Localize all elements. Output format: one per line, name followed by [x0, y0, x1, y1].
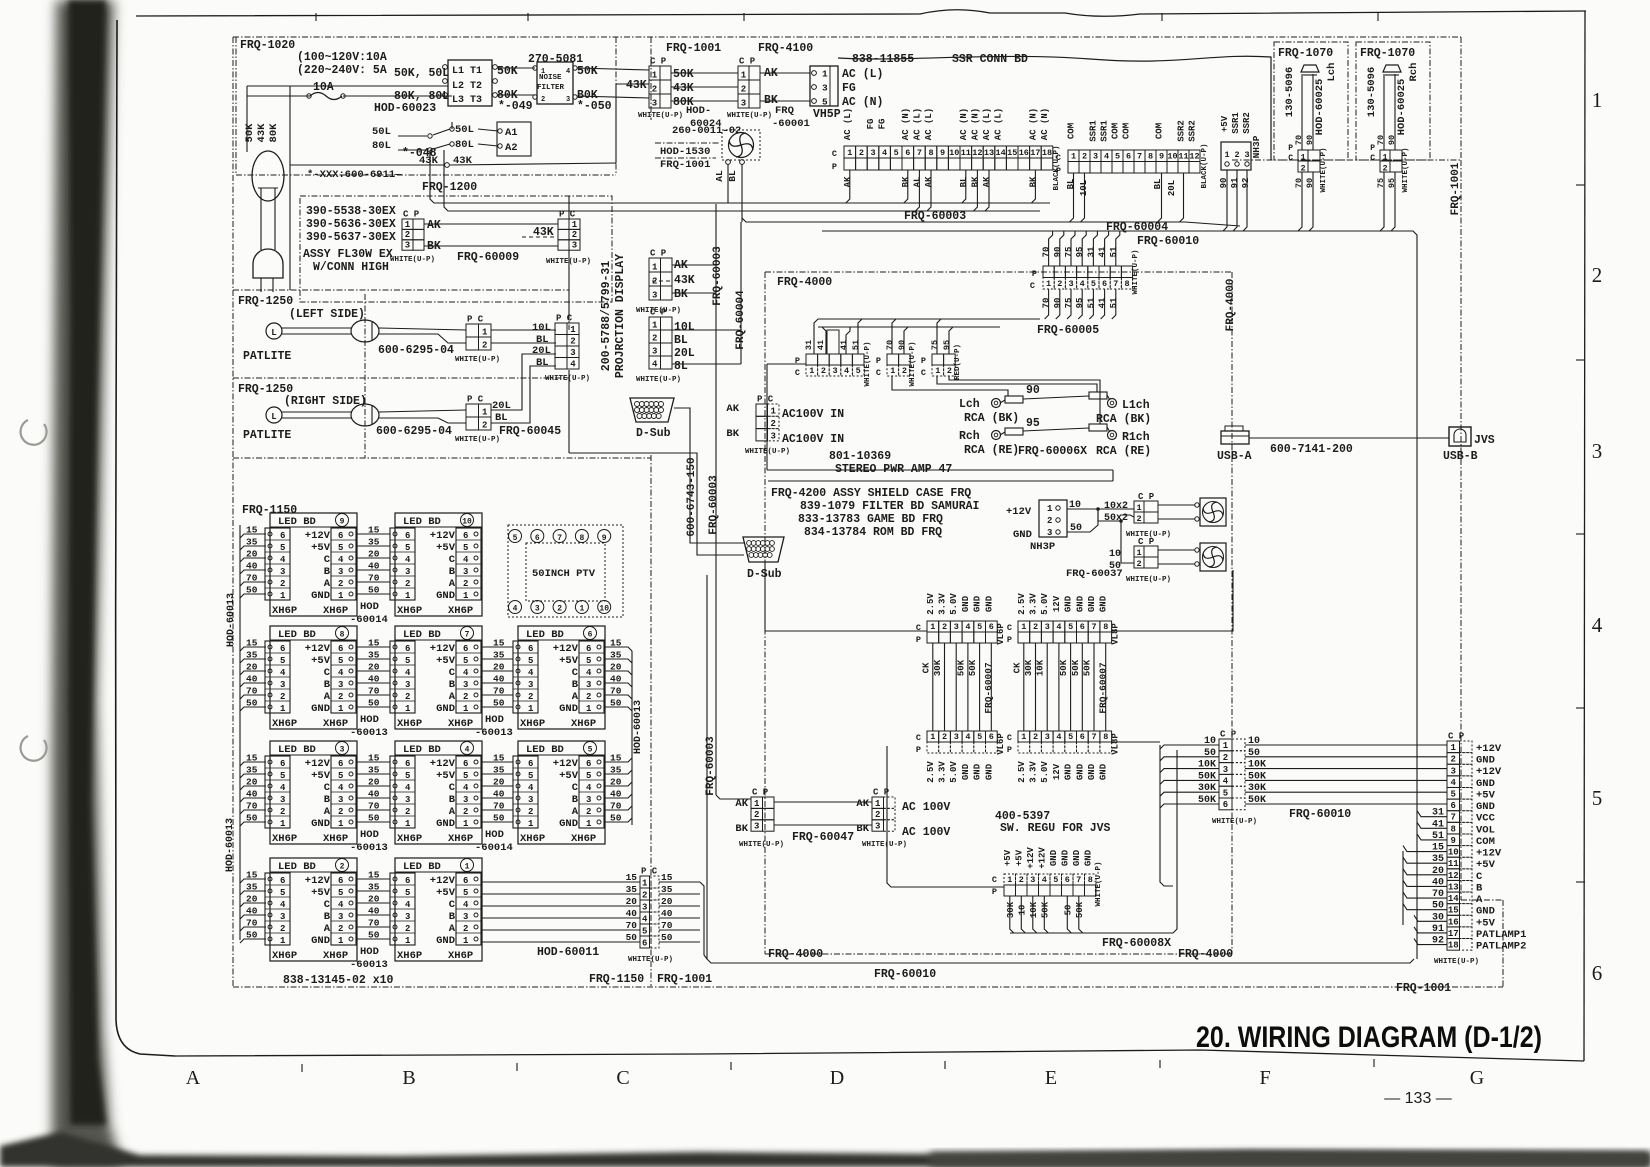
svg-text:1: 1	[935, 366, 940, 376]
svg-text:1: 1	[280, 704, 286, 714]
svg-text:50: 50	[661, 932, 673, 943]
svg-text:90: 90	[1387, 135, 1397, 145]
svg-text:1: 1	[642, 878, 648, 888]
svg-text:2: 2	[405, 230, 410, 240]
svg-text:4: 4	[528, 783, 534, 793]
svg-text:5: 5	[977, 732, 982, 742]
speaker connector wires down Rch	[1380, 172, 1384, 231]
svg-text:AC100V IN: AC100V IN	[782, 433, 844, 446]
svg-text:HOD-60013: HOD-60013	[633, 700, 644, 754]
svg-text:FRQ-60007: FRQ-60007	[983, 662, 994, 714]
svg-text:70: 70	[1042, 298, 1052, 309]
wires D-Sub to cable 600-6743-150	[674, 408, 744, 543]
svg-text:50K: 50K	[497, 65, 518, 78]
wire lamp conn drop	[568, 196, 570, 219]
svg-text:+12V: +12V	[305, 530, 331, 542]
svg-text:31: 31	[804, 340, 814, 350]
svg-text:2: 2	[1047, 516, 1052, 526]
svg-text:9: 9	[940, 148, 945, 158]
regulator right loop wire	[1160, 745, 1173, 886]
svg-text:AC100V IN: AC100V IN	[782, 408, 844, 421]
dashed box FRQ-1070 Lch	[1274, 42, 1348, 160]
svg-text:4: 4	[405, 555, 411, 565]
svg-text:+5V: +5V	[436, 542, 456, 554]
svg-text:40: 40	[610, 674, 622, 685]
svg-text:*-049: *-049	[498, 100, 533, 113]
svg-text:PATLAMP1: PATLAMP1	[1476, 929, 1526, 941]
svg-text:AC (N): AC (N)	[1028, 108, 1038, 140]
svg-text:50K: 50K	[577, 65, 598, 78]
svg-text:1: 1	[1224, 150, 1229, 160]
svg-text:ASSY FL30W EX: ASSY FL30W EX	[303, 248, 393, 261]
svg-text:9: 9	[340, 518, 345, 527]
svg-text:1: 1	[875, 799, 881, 809]
svg-text:+5V: +5V	[311, 770, 331, 782]
svg-text:1: 1	[586, 819, 592, 829]
svg-text:18: 18	[1042, 148, 1052, 158]
svg-text:2: 2	[1136, 559, 1141, 569]
svg-text:VH5P: VH5P	[813, 108, 841, 121]
transformer HOD-60023 terminal block	[448, 60, 492, 106]
svg-text:2: 2	[1592, 263, 1603, 287]
bus FRQ-60003 horizontal	[430, 150, 1050, 203]
svg-text:43K: 43K	[674, 274, 695, 287]
LED BD row input fan wires	[240, 762, 266, 766]
svg-text:AC (L): AC (L)	[912, 108, 922, 140]
svg-text:C: C	[916, 733, 921, 743]
svg-text:5.0V: 5.0V	[949, 761, 959, 783]
patlite lamp left	[266, 323, 282, 339]
svg-text:6: 6	[463, 531, 468, 541]
svg-text:HOD-60025: HOD-60025	[1314, 79, 1326, 136]
svg-text:2: 2	[902, 366, 907, 376]
svg-text:10L: 10L	[532, 322, 551, 334]
svg-text:6: 6	[338, 644, 343, 654]
wire BK	[424, 245, 558, 247]
svg-text:COM: COM	[1111, 123, 1121, 139]
svg-text:XH6P: XH6P	[571, 833, 596, 845]
svg-text:A: A	[572, 806, 579, 818]
svg-text:41: 41	[1098, 297, 1108, 308]
svg-text:20L: 20L	[674, 347, 695, 360]
drawing frame bottom line	[175, 1050, 1584, 1061]
wires 2P a up	[892, 319, 896, 354]
svg-text:2: 2	[1057, 279, 1062, 289]
LED BD 6 board	[518, 626, 605, 729]
svg-text:4: 4	[405, 783, 411, 793]
svg-text:95: 95	[1026, 417, 1040, 430]
svg-text:2: 2	[528, 807, 533, 817]
svg-text:AK: AK	[982, 176, 992, 187]
svg-text:75: 75	[930, 340, 940, 350]
svg-text:VL6P: VL6P	[996, 733, 1006, 755]
svg-text:3: 3	[954, 732, 959, 742]
svg-text:VOL: VOL	[1476, 824, 1495, 836]
svg-text:5: 5	[280, 543, 285, 553]
svg-text:C: C	[795, 368, 800, 378]
svg-text:35: 35	[661, 884, 673, 895]
svg-text:P: P	[992, 887, 997, 897]
svg-text:AK: AK	[726, 403, 739, 415]
svg-text:2: 2	[405, 807, 410, 817]
svg-text:10K: 10K	[1036, 659, 1046, 676]
svg-text:2: 2	[280, 807, 285, 817]
patlite body right	[351, 404, 379, 426]
connector 2P Rch	[1380, 150, 1390, 161]
svg-text:FRQ-60003: FRQ-60003	[712, 246, 724, 306]
svg-text:2: 2	[340, 863, 345, 872]
svg-text:4: 4	[1056, 622, 1061, 632]
svg-text:WHITE(U-P): WHITE(U-P)	[1402, 147, 1410, 192]
svg-text:6: 6	[280, 531, 285, 541]
svg-text:A: A	[186, 1067, 201, 1089]
svg-text:5: 5	[642, 926, 647, 936]
svg-text:+5V: +5V	[1014, 849, 1024, 866]
svg-text:9: 9	[1451, 836, 1456, 846]
svg-text:BL: BL	[674, 334, 688, 347]
svg-text:1: 1	[280, 819, 286, 829]
connector NH3P	[1221, 142, 1251, 170]
wire switch drops	[429, 150, 431, 165]
svg-text:3: 3	[405, 241, 410, 251]
svg-text:WHITE(U-P): WHITE(U-P)	[1434, 958, 1479, 966]
svg-text:5: 5	[405, 888, 410, 898]
svg-text:FRQ-1001: FRQ-1001	[666, 42, 721, 55]
svg-text:6: 6	[405, 644, 410, 654]
LED BD 1 XH6P output connector	[456, 873, 481, 945]
svg-text:GND: GND	[1099, 763, 1109, 780]
svg-text:35: 35	[610, 650, 622, 661]
svg-text:3: 3	[405, 912, 410, 922]
RCA lead 95	[1005, 428, 1023, 435]
svg-text:XH6P: XH6P	[323, 950, 348, 962]
svg-text:C P: C P	[1448, 732, 1465, 742]
svg-text:6: 6	[463, 759, 468, 769]
svg-text:5: 5	[588, 746, 593, 755]
svg-text:FRQ-4000: FRQ-4000	[777, 276, 832, 289]
svg-text:70: 70	[1042, 247, 1052, 258]
svg-text:2.5V: 2.5V	[1017, 761, 1027, 783]
svg-text:-60013: -60013	[350, 959, 388, 971]
svg-text:4: 4	[1592, 613, 1603, 637]
svg-text:6: 6	[405, 531, 410, 541]
speaker wires Rch	[1383, 74, 1385, 150]
wires VL6P	[932, 643, 934, 731]
svg-text:HOD-60025: HOD-60025	[1396, 79, 1408, 136]
svg-text:5.0V: 5.0V	[1040, 761, 1050, 783]
LED BD 10 XH6P input connector	[390, 528, 415, 600]
svg-text:2: 2	[586, 692, 591, 702]
svg-text:50: 50	[610, 698, 622, 709]
svg-text:50K, 50L: 50K, 50L	[394, 67, 449, 80]
svg-text:GND: GND	[1075, 595, 1085, 612]
LED BD 10 board	[395, 513, 482, 616]
svg-text:4: 4	[586, 668, 592, 678]
svg-text:4: 4	[1042, 875, 1047, 885]
svg-text:B: B	[449, 566, 456, 578]
svg-text:L: L	[271, 412, 276, 422]
svg-text:GND: GND	[1087, 595, 1097, 612]
svg-text:7: 7	[465, 631, 470, 640]
svg-text:8: 8	[1088, 875, 1093, 885]
svg-text:91: 91	[1230, 177, 1240, 188]
svg-text:35: 35	[610, 765, 622, 776]
svg-text:C: C	[1030, 281, 1035, 291]
svg-text:GND: GND	[1013, 529, 1032, 541]
svg-text:FILTER: FILTER	[537, 84, 565, 92]
svg-text:5: 5	[513, 534, 518, 543]
wires right patlite up to 4pin	[491, 354, 556, 410]
svg-text:70: 70	[885, 340, 895, 350]
svg-text:+5V: +5V	[436, 655, 456, 667]
svg-text:2: 2	[280, 692, 285, 702]
svg-text:HOD-60011: HOD-60011	[537, 946, 599, 959]
svg-text:+5V: +5V	[1476, 859, 1496, 871]
svg-text:FG: FG	[866, 119, 876, 130]
svg-text:90: 90	[1053, 298, 1063, 309]
wires 6P to JVS 18P	[1245, 744, 1447, 746]
svg-text:4: 4	[642, 914, 648, 924]
connector 2P Lch	[1298, 150, 1308, 161]
RCA R1ch jack	[1108, 431, 1117, 440]
svg-text:FRQ-60010: FRQ-60010	[1289, 808, 1351, 821]
wires amp to RCA leads	[892, 376, 1008, 396]
svg-text:14: 14	[995, 148, 1005, 158]
svg-text:6: 6	[989, 622, 994, 632]
svg-text:3: 3	[1093, 152, 1098, 162]
connector FRQ-60005 8P	[1043, 266, 1054, 278]
svg-text:GND: GND	[1476, 755, 1495, 767]
svg-text:GND: GND	[436, 935, 455, 947]
svg-text:P C: P C	[467, 315, 484, 325]
svg-text:3: 3	[280, 795, 285, 805]
svg-text:4: 4	[338, 668, 344, 678]
svg-text:75: 75	[1064, 247, 1074, 258]
svg-text:70: 70	[610, 686, 622, 697]
stereo amp enclosure	[767, 363, 806, 365]
svg-text:41: 41	[839, 340, 849, 350]
svg-text:+12V: +12V	[1026, 847, 1036, 869]
svg-text:2: 2	[875, 810, 880, 820]
svg-text:3: 3	[754, 822, 759, 832]
svg-text:+12V: +12V	[305, 643, 331, 655]
svg-text:1: 1	[528, 819, 534, 829]
svg-text:LED BD: LED BD	[403, 744, 441, 756]
svg-text:G: G	[1470, 1067, 1484, 1089]
svg-text:FRQ: FRQ	[775, 105, 794, 117]
svg-text:GND: GND	[1075, 763, 1085, 780]
svg-text:+12V: +12V	[1476, 766, 1502, 778]
LED BD 3 board	[270, 741, 357, 844]
svg-text:GND: GND	[1064, 763, 1074, 780]
svg-text:1: 1	[405, 220, 411, 230]
svg-text:3: 3	[652, 346, 657, 356]
svg-text:3: 3	[528, 680, 533, 690]
svg-text:FRQ-60003: FRQ-60003	[904, 210, 966, 223]
svg-text:2: 2	[652, 333, 657, 343]
svg-text:70: 70	[1376, 135, 1386, 145]
LED BD 9 XH6P input connector	[265, 528, 290, 600]
svg-text:4: 4	[463, 555, 469, 565]
svg-text:50K: 50K	[1075, 901, 1085, 918]
svg-text:GND: GND	[961, 763, 971, 780]
svg-text:600-7141-200: 600-7141-200	[1270, 443, 1353, 456]
svg-text:3: 3	[1223, 765, 1228, 775]
svg-text:L1 T1: L1 T1	[452, 66, 482, 77]
svg-text:WHITE(U-P): WHITE(U-P)	[636, 376, 681, 384]
svg-text:839-1079 FILTER BD SAMURAI: 839-1079 FILTER BD SAMURAI	[800, 500, 980, 513]
svg-text:WHITE(U-P): WHITE(U-P)	[862, 841, 907, 849]
svg-text:4: 4	[586, 783, 592, 793]
svg-text:10: 10	[1109, 549, 1121, 560]
svg-text:6: 6	[1065, 875, 1070, 885]
svg-text:50K: 50K	[1071, 659, 1081, 676]
svg-text:41: 41	[1098, 246, 1108, 257]
svg-text:B: B	[449, 911, 456, 923]
svg-text:LED BD: LED BD	[403, 516, 441, 528]
svg-text:L2 T2: L2 T2	[452, 81, 482, 92]
wires to VH5P	[760, 72, 810, 74]
svg-text:1: 1	[572, 220, 578, 230]
svg-text:C P: C P	[650, 249, 667, 259]
wires conn to fan1	[1158, 504, 1195, 506]
svg-text:16: 16	[1019, 148, 1029, 158]
svg-text:L3 T3: L3 T3	[452, 95, 482, 106]
svg-text:NH3P: NH3P	[1030, 541, 1055, 553]
svg-text:3: 3	[338, 912, 343, 922]
svg-text:43K: 43K	[256, 123, 268, 143]
svg-text:3: 3	[586, 795, 591, 805]
svg-text:GND: GND	[436, 818, 455, 830]
svg-text:CK: CK	[921, 662, 931, 673]
svg-text:6: 6	[463, 876, 468, 886]
svg-text:90: 90	[897, 340, 907, 350]
svg-text:90: 90	[1305, 135, 1315, 145]
svg-text:NH3P: NH3P	[1251, 135, 1262, 158]
svg-text:HOD-60013: HOD-60013	[225, 818, 236, 872]
svg-text:10A: 10A	[313, 81, 334, 94]
svg-text:8: 8	[1103, 622, 1108, 632]
svg-text:6: 6	[463, 644, 468, 654]
USB-B JVS connector	[1449, 427, 1471, 446]
RCA lead 90	[1005, 396, 1023, 403]
svg-text:C: C	[324, 899, 331, 911]
svg-text:80K: 80K	[268, 123, 280, 143]
svg-text:XH6P: XH6P	[397, 605, 422, 617]
svg-text:1: 1	[1592, 88, 1603, 112]
svg-text:2: 2	[1382, 164, 1387, 174]
svg-text:AC 100V: AC 100V	[902, 801, 950, 814]
svg-text:3: 3	[338, 795, 343, 805]
svg-text:+5V: +5V	[311, 655, 331, 667]
svg-text:FRQ-60009: FRQ-60009	[457, 251, 519, 264]
svg-text:3: 3	[741, 98, 746, 108]
svg-text:XH6P: XH6P	[448, 833, 473, 845]
svg-text:2.5V: 2.5V	[1017, 593, 1027, 615]
dotted box 50INCH PTV inner	[526, 543, 605, 601]
svg-text:11: 11	[1178, 152, 1188, 162]
svg-text:3: 3	[280, 680, 285, 690]
scanned page bottom dark band	[0, 1132, 1650, 1167]
svg-text:3: 3	[586, 680, 591, 690]
svg-text:50: 50	[626, 932, 638, 943]
svg-text:GND: GND	[1099, 595, 1109, 612]
regulator left loop wire	[887, 746, 1004, 887]
svg-text:51: 51	[1086, 297, 1096, 308]
svg-text:5: 5	[280, 888, 285, 898]
amp input bus	[818, 318, 1040, 320]
svg-text:A: A	[324, 691, 331, 703]
speaker 130-5096 Rch	[1383, 65, 1401, 72]
svg-text:6: 6	[1451, 801, 1456, 811]
svg-text:5: 5	[528, 771, 533, 781]
svg-text:FRQ-60045: FRQ-60045	[499, 425, 561, 438]
svg-text:2: 2	[463, 807, 468, 817]
wires pair	[774, 801, 872, 803]
svg-text:13: 13	[984, 148, 994, 158]
svg-text:40: 40	[626, 908, 638, 919]
svg-text:3: 3	[566, 96, 570, 104]
svg-text:3: 3	[463, 912, 468, 922]
svg-text:12: 12	[972, 148, 982, 158]
svg-text:130-5096: 130-5096	[1366, 67, 1378, 117]
svg-text:5: 5	[338, 888, 343, 898]
svg-text:WHITE(U-P): WHITE(U-P)	[390, 256, 435, 264]
svg-text:833-13783 GAME BD FRQ: 833-13783 GAME BD FRQ	[798, 513, 943, 526]
svg-text:80L: 80L	[455, 139, 474, 151]
svg-text:15: 15	[610, 753, 622, 764]
svg-text:20: 20	[610, 662, 622, 673]
svg-text:1: 1	[405, 704, 411, 714]
svg-text:2: 2	[859, 148, 864, 158]
svg-text:HOD-60023: HOD-60023	[374, 102, 436, 115]
bus speaker wires join	[1185, 222, 1240, 226]
svg-text:92: 92	[1241, 178, 1251, 189]
wire FRQ-60004 vertical	[740, 222, 742, 364]
svg-text:2: 2	[541, 96, 545, 104]
svg-text:3: 3	[463, 680, 468, 690]
svg-text:B: B	[324, 911, 331, 923]
svg-text:CK: CK	[1012, 662, 1022, 673]
svg-text:SSR CONN BD: SSR CONN BD	[952, 53, 1028, 66]
svg-text:+5V: +5V	[559, 770, 579, 782]
svg-text:E: E	[1045, 1067, 1057, 1089]
svg-text:+5V: +5V	[1476, 917, 1496, 929]
svg-text:-60014: -60014	[475, 842, 513, 854]
svg-text:C P: C P	[403, 210, 420, 220]
connector SSR 12P	[1068, 150, 1079, 162]
LED BD 2 XH6P input connector	[265, 873, 290, 945]
svg-text:GND: GND	[1083, 849, 1093, 866]
svg-text:8: 8	[340, 631, 345, 640]
svg-text:2.5V: 2.5V	[926, 761, 936, 783]
svg-text:50K: 50K	[1040, 901, 1050, 918]
svg-text:LED BD: LED BD	[278, 516, 316, 528]
svg-text:5: 5	[586, 656, 591, 666]
svg-text:C: C	[449, 554, 456, 566]
svg-text:10x2: 10x2	[1104, 501, 1128, 512]
svg-text:70: 70	[610, 801, 622, 812]
svg-text:GND: GND	[961, 595, 971, 612]
svg-text:2: 2	[482, 340, 487, 350]
svg-text:35: 35	[626, 884, 638, 895]
SSR board outline	[838, 56, 1271, 160]
svg-text:C: C	[1370, 154, 1375, 163]
svg-text:2: 2	[586, 807, 591, 817]
svg-text:30K: 30K	[933, 659, 943, 676]
svg-text:1: 1	[405, 819, 411, 829]
connector VL8P top	[1018, 621, 1030, 632]
